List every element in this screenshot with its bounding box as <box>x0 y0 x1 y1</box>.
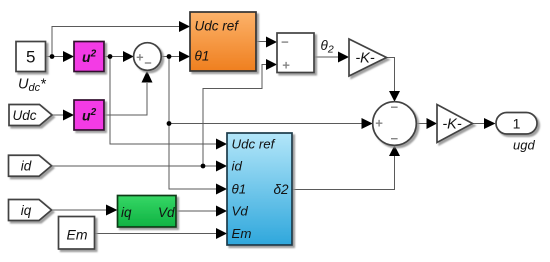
arrowhead into U2 id port <box>216 161 227 172</box>
arrowhead into sum S1 left <box>123 51 134 62</box>
wire u2 B2 output up to sum S1 bottom <box>104 83 147 115</box>
svg-text:Udc*: Udc* <box>18 77 47 95</box>
node C junction dot <box>167 54 172 59</box>
input port iq <box>9 200 52 221</box>
arrowhead into U1 Udc ref port <box>179 21 190 32</box>
svg-text:Em: Em <box>232 226 252 241</box>
arrowhead into u2 B1 <box>63 51 74 62</box>
arrowhead into subtract plus port <box>266 59 277 70</box>
arrowhead into U2 Vd port <box>216 206 227 217</box>
constant block Em <box>59 217 95 250</box>
wire id port to id input of U2 <box>52 165 217 167</box>
node A junction dot <box>50 54 55 59</box>
arrowhead into U2 Em port <box>216 228 227 239</box>
arrowhead into U2 Udc ref port <box>216 139 227 150</box>
sum junction S1 <box>134 43 162 71</box>
arrowhead into gain G2 <box>427 118 438 129</box>
arrowhead into green block B3 <box>106 205 117 216</box>
wire node D to sum S2 plus input <box>169 123 362 125</box>
svg-text:Udc: Udc <box>12 108 36 123</box>
svg-text:iq: iq <box>21 203 32 218</box>
svg-text:id: id <box>232 159 243 174</box>
svg-text:θ2: θ2 <box>321 38 334 55</box>
out port 1 <box>496 113 537 135</box>
node B junction dot <box>108 54 113 59</box>
wire subtract output to gain G1 <box>314 56 339 58</box>
wire iq port to green block B3 <box>52 209 107 211</box>
wire Em block to Em input of U2 <box>95 233 217 235</box>
label ugd <box>513 138 535 153</box>
svg-text:iq: iq <box>121 205 132 220</box>
subtract block S3 <box>277 33 314 73</box>
wire node A to u2 block B1 <box>52 56 64 58</box>
wire sum S1 output to theta1 input of U1 <box>161 56 179 58</box>
arrowhead into u2 B2 <box>63 110 74 121</box>
arrowhead into sum S2 top <box>389 91 400 102</box>
arrowhead into subtract minus port <box>266 37 277 48</box>
arrowhead into sum S1 bottom <box>142 71 153 83</box>
square block u2 B1 <box>74 42 104 72</box>
arrowhead into sum S2 left <box>362 118 373 129</box>
wire gain G2 output to out port 1 <box>473 123 485 125</box>
gain G1 <box>349 39 387 76</box>
arrowhead into U2 theta1 port <box>216 184 227 195</box>
arrowhead into sum S2 bottom <box>389 145 400 156</box>
input port Udc <box>9 105 52 126</box>
wire from constant 5 to node A <box>46 56 53 58</box>
subsystem U2 with delta2 output <box>227 133 292 245</box>
square block u2 B2 <box>74 100 104 130</box>
svg-text:Vd: Vd <box>232 204 249 219</box>
gain G2 <box>437 105 473 143</box>
svg-text:1: 1 <box>513 116 521 132</box>
wire Udc port to u2 block B2 <box>52 114 64 116</box>
svg-text:Em: Em <box>67 227 88 243</box>
arrowhead into out port 1 <box>484 118 496 129</box>
wire node B down to Udc ref input of U2 <box>110 57 217 145</box>
subsystem U1 Udc ref / theta1 <box>190 12 256 71</box>
wire sum S2 output to gain G2 <box>416 123 427 125</box>
label Udc* <box>18 77 47 95</box>
svg-text:id: id <box>21 159 32 174</box>
svg-text:ugd: ugd <box>513 138 535 153</box>
svg-text:Udc ref: Udc ref <box>195 19 240 34</box>
svg-text:-K-: -K- <box>355 51 375 67</box>
svg-text:5: 5 <box>26 48 35 67</box>
wire green block B3 output to Vd input of U2 <box>176 210 217 212</box>
node D junction dot <box>167 121 172 126</box>
wire node D down to theta1 input of U2 <box>169 124 217 190</box>
wire node A up to Udc ref input of U1 <box>52 27 179 57</box>
sum junction S2 <box>373 102 417 146</box>
svg-text:δ2: δ2 <box>273 182 289 197</box>
wire node C down to node D <box>168 57 170 124</box>
constant block 5 <box>16 42 46 72</box>
wire U1 output to subtract minus input <box>257 41 268 43</box>
wire gain G1 output down to sum S2 top <box>387 58 395 92</box>
svg-text:-K-: -K- <box>442 117 462 133</box>
svg-text:Udc ref: Udc ref <box>232 137 276 152</box>
green block B3 iq to Vd <box>118 196 177 228</box>
arrowhead into U1 theta1 port <box>179 51 190 62</box>
wire U2 delta2 output up to sum S2 bottom <box>292 156 395 190</box>
arrowhead into gain G1 <box>338 52 349 63</box>
wire u2 B1 output to sum S1 <box>104 56 124 58</box>
input port id <box>9 155 52 176</box>
wire node E branch up to subtract plus input <box>203 65 267 167</box>
node E junction dot <box>201 164 206 169</box>
svg-text:θ1: θ1 <box>195 49 210 64</box>
label theta2 <box>321 38 334 55</box>
svg-text:θ1: θ1 <box>232 182 247 197</box>
svg-text:Vd: Vd <box>158 205 175 220</box>
